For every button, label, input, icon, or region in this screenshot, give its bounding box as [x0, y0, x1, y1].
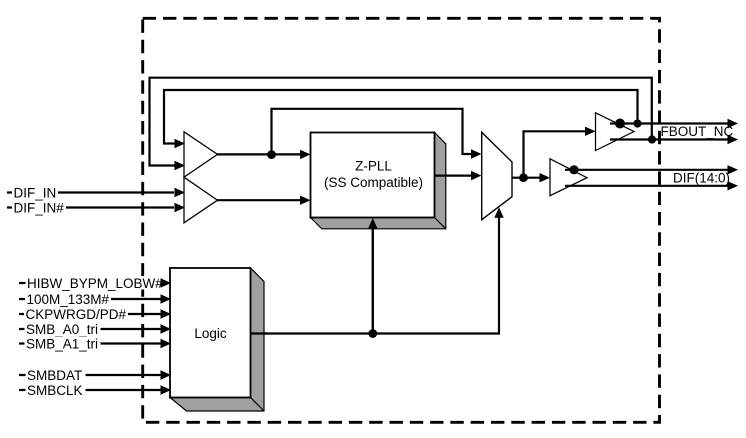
svg-text:DIF_IN: DIF_IN: [14, 185, 57, 200]
svg-text:FBOUT_NC: FBOUT_NC: [661, 124, 734, 139]
svg-text:Z-PLL: Z-PLL: [355, 159, 392, 174]
svg-text:SMB_A0_tri: SMB_A0_tri: [26, 322, 98, 337]
svg-text:Logic: Logic: [194, 326, 227, 341]
svg-text:SMBDAT: SMBDAT: [27, 368, 82, 383]
svg-text:100M_133M#: 100M_133M#: [27, 292, 110, 307]
svg-text:SMBCLK: SMBCLK: [27, 383, 83, 398]
svg-text:DIF_IN#: DIF_IN#: [14, 200, 65, 215]
svg-text:(SS Compatible): (SS Compatible): [324, 175, 423, 190]
svg-text:DIF(14:0): DIF(14:0): [673, 171, 730, 186]
svg-text:SMB_A1_tri: SMB_A1_tri: [26, 336, 98, 351]
svg-text:HIBW_BYPM_LOBW#: HIBW_BYPM_LOBW#: [27, 276, 163, 291]
svg-text:CKPWRGD/PD#: CKPWRGD/PD#: [26, 307, 127, 322]
